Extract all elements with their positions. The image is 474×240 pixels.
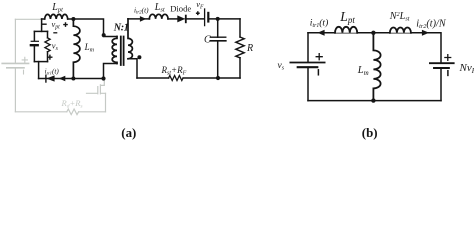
label minus vpt [41,23,46,25]
svg-text:NvF: NvF [459,62,474,75]
arrow itr1 current (b) [317,30,324,36]
wire gray drive top [15,18,41,20]
resistor Rd+Rs (gray) [67,109,79,115]
battery vs plates [290,62,324,64]
wire top-left of (a) [42,18,45,20]
battery vF short plate [207,13,209,22]
battery NvF plates [430,62,454,64]
circuit (b) top rail [308,32,441,34]
svg-text:C: C [204,35,211,46]
capacitor Cd (a) top leg [33,31,35,40]
battery Vin (gray) plates [2,63,28,67]
wire bottom rail (b) [308,100,441,102]
transistor Q1 MOSFET (gray) [87,79,106,94]
label minus vs [53,32,57,34]
wire left branch vertical [41,19,43,31]
diode D2 triangle [177,15,185,22]
battery vs plus sign [316,54,322,60]
diode D1 bar [45,75,47,82]
battery NvF plus sign [445,55,451,61]
svg-text:(a): (a) [121,126,136,140]
wire bottom rail left loop [39,78,104,80]
capacitor Cd bottom leg [33,46,35,61]
arrow ipr2 current [140,16,146,22]
capacitor C bottom leg [217,41,219,78]
svg-text:Diode: Diode [170,3,191,13]
node transformer primary dot mark [102,33,106,37]
node Lm bottom junction [71,77,75,81]
label plus vpt [63,22,68,27]
diode D1 triangle [46,75,54,81]
svg-text:Rd+Rs: Rd+Rs [61,98,83,110]
wire vF to output node [208,18,240,20]
battery Vin plus sign [22,57,27,62]
wire diode to vF [185,18,204,20]
battery NvF minus tick [447,71,449,76]
resistor R bottom leg [239,58,241,78]
transformer T1 core bars [121,37,124,66]
arrow itr2 current (b) [422,30,429,36]
capacitor Cd plates [31,40,38,42]
inductor Lm (b) [373,33,380,101]
battery Vin (gray) lead top [14,19,16,62]
battery vs (b) lead top [307,33,309,62]
node output top junction [216,17,220,21]
battery Vin lead bottom / gray left wire [14,68,16,112]
resistor Rst+RF zigzag [169,76,183,81]
inductor Lm (a) [73,19,80,79]
battery vF tall plate [204,9,206,26]
resistor R top leg [239,19,241,37]
wire secondary bottom lead [128,59,137,78]
node transformer primary bottom junction [101,76,105,80]
transformer T1 secondary winding [128,19,132,59]
resistor R zigzag [236,37,244,58]
inductor N2Lst (b) [390,27,411,32]
wire parallel box bottom [34,61,47,63]
svg-text:(b): (b) [362,126,378,140]
node b bottom junction [371,98,375,102]
node transformer secondary dot mark [137,55,141,59]
diode D2 bar [185,16,187,23]
wire secondary top rail [128,18,149,20]
label plus vF [196,11,200,15]
battery vs minus tick [317,70,319,75]
arrow ipr1 current [59,76,66,81]
label plus vs [47,55,52,60]
node Lpt-Lm junction [71,17,75,21]
node b top junction [371,31,375,35]
wire primary bottom lead [104,64,118,79]
node output bottom junction [216,76,220,80]
wire stem to bottom rail [38,62,40,79]
svg-text:R: R [246,43,253,54]
inductor Lpt (a) [45,14,68,19]
battery NvF lead bottom [440,68,442,101]
wire parallel box top [34,30,47,32]
resistor vs branch bottom leg [47,52,49,62]
wire gray up to MOSFET source [105,93,107,112]
wire gray bottom rail [15,111,105,113]
battery Vin minus tick [23,70,25,74]
wire to diode [168,18,178,20]
inductor Lst (a) [149,14,168,19]
transformer T1 primary winding [112,37,117,64]
svg-text:N:1: N:1 [113,22,129,33]
battery NvF (b) lead top [440,33,442,63]
battery vs lead bottom [307,67,309,100]
resistor vs zigzag [45,38,50,52]
wire top rail to transformer [68,19,117,37]
inductor Lpt (b) [335,27,357,33]
capacitor C top leg [217,19,219,37]
resistor vs branch top leg [47,31,49,37]
capacitor C plates [210,36,226,38]
wire output bottom rail [137,77,240,79]
